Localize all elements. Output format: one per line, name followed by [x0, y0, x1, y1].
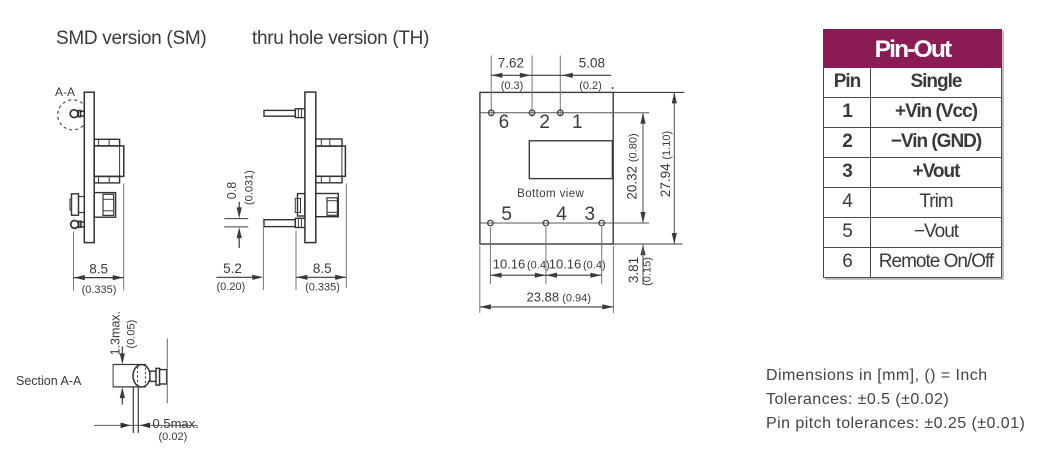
svg-text:20.32 (0.80): 20.32 (0.80): [624, 133, 639, 199]
TH module top flange: [316, 139, 342, 146]
SMD dimension 8.5: [74, 262, 124, 296]
bottom edge extension: [613, 243, 682, 245]
svg-text:6: 6: [499, 112, 510, 133]
top pin row line: [480, 112, 649, 114]
TH top pin: [264, 109, 305, 118]
svg-text:(0.20): (0.20): [217, 281, 246, 293]
pin 4 pad: [543, 220, 549, 226]
label window rectangle: [529, 141, 612, 179]
svg-text:(0.335): (0.335): [305, 282, 340, 294]
TH module body: [316, 146, 346, 176]
pin number 5: [501, 204, 512, 225]
dimension 1.3max up arrow: [120, 387, 125, 405]
svg-text:Bottom view: Bottom view: [517, 188, 584, 200]
svg-text:5.2: 5.2: [223, 261, 242, 276]
dimension 10.16 left: [491, 257, 550, 278]
extension line package left down: [479, 246, 481, 313]
pin 3 pad: [599, 220, 605, 226]
TH dimension 8.5: [296, 261, 346, 294]
svg-text:(0.05): (0.05): [125, 320, 137, 349]
extension line pin 6: [490, 56, 492, 117]
pin flange: [156, 368, 160, 385]
dimension 23.88: [480, 290, 614, 310]
pin 5 pad: [488, 220, 494, 226]
SMD pcb board: [84, 92, 94, 242]
title thru hole version (TH): [252, 28, 429, 50]
SMD top solder pin: [70, 110, 84, 118]
dimension 27.94: [658, 92, 677, 244]
dimension 5.08: [562, 56, 614, 93]
svg-text:8.5: 8.5: [313, 261, 332, 276]
pcb surface line: [166, 338, 168, 403]
svg-text:(0.94): (0.94): [562, 293, 591, 305]
dimension 0.5max: [94, 416, 199, 443]
pin neck: [150, 371, 156, 381]
lead lines: [133, 387, 138, 433]
SMD bottom solder pin: [71, 221, 85, 229]
TH extension line collar: [295, 231, 297, 290]
TH module bottom flange: [316, 176, 342, 183]
svg-text:0.5max.: 0.5max.: [153, 416, 199, 431]
extension line pin 5 down: [489, 227, 491, 284]
tick line upper: [113, 364, 146, 366]
SMD module top flange: [94, 139, 119, 146]
svg-text:1: 1: [572, 112, 583, 133]
TH bottom pin: [264, 218, 305, 227]
dimension 0.8 pin thickness: [224, 170, 255, 248]
dimension 1.3max down arrow: [120, 347, 125, 365]
svg-text:27.94 (1.10): 27.94 (1.10): [658, 131, 673, 197]
pin number 3: [585, 204, 596, 225]
svg-text:(0.031): (0.031): [244, 170, 256, 205]
SMD right header block: [94, 193, 115, 218]
TH dimension 5.2: [216, 261, 263, 293]
svg-text:10.16: 10.16: [493, 257, 526, 272]
svg-text:(0.4): (0.4): [583, 260, 606, 272]
SMD module body: [94, 146, 124, 177]
tick join vertical: [112, 365, 114, 387]
dimension 7.62: [491, 56, 611, 93]
svg-text:8.5: 8.5: [89, 262, 108, 277]
svg-text:4: 4: [556, 204, 567, 225]
Pin-Out table: [823, 29, 1002, 278]
svg-text:5: 5: [501, 204, 512, 225]
package outline: [480, 92, 613, 244]
svg-text:23.88: 23.88: [527, 290, 560, 305]
label A-A: [55, 85, 75, 99]
TH pcb board: [305, 92, 316, 243]
pin number 6: [499, 112, 510, 133]
TH left connector housing: [295, 194, 305, 216]
TH right header block: [316, 194, 339, 217]
svg-text:3: 3: [585, 204, 596, 225]
svg-text:3.81: 3.81: [626, 257, 641, 283]
TH extension line body right: [345, 184, 347, 289]
svg-text:5.08: 5.08: [579, 56, 605, 71]
svg-text:(0.15): (0.15): [642, 257, 654, 286]
svg-text:(0.2): (0.2): [579, 80, 602, 92]
tick line lower: [113, 386, 146, 388]
svg-text:Section A-A: Section A-A: [16, 374, 82, 388]
title SMD version (SM): [56, 28, 206, 50]
pin number 4: [556, 204, 567, 225]
pin 2 pad: [529, 110, 535, 116]
svg-text:10.16: 10.16: [549, 257, 582, 272]
TH extension line pin end: [262, 219, 264, 291]
pin number 1: [572, 112, 583, 133]
pin 6 pad: [488, 110, 494, 116]
svg-text:(0.4): (0.4): [527, 260, 550, 272]
svg-text:0.8: 0.8: [225, 182, 239, 199]
svg-text:A-A: A-A: [55, 85, 75, 99]
svg-text:7.62: 7.62: [498, 56, 524, 71]
pin barrel: [160, 370, 167, 384]
svg-text:2: 2: [539, 112, 550, 133]
extension line pin 4 down: [545, 227, 547, 284]
dimension 1.3max vertical label: [109, 311, 138, 355]
top edge extension: [613, 91, 684, 93]
extension line pin 3 down: [601, 227, 603, 284]
SMD extension line right: [123, 184, 125, 291]
footer notes: [766, 364, 1025, 436]
extension line pin 2: [531, 56, 533, 117]
dimension 20.32: [624, 113, 645, 223]
label Bottom view: [517, 188, 584, 200]
pin number 2: [539, 112, 550, 133]
extension line package right down: [612, 246, 614, 313]
detail circle A-A (dashed): [58, 100, 88, 130]
svg-text:(0.02): (0.02): [159, 431, 188, 443]
solder ball section: [133, 365, 150, 387]
extension line pin 1: [559, 56, 561, 117]
SMD left connector housing: [70, 194, 84, 215]
label Section A-A: [16, 374, 82, 388]
svg-text:(0.3): (0.3): [501, 80, 524, 92]
bottom pin row line: [480, 222, 649, 224]
SMD extension line left: [73, 232, 75, 291]
dimension 3.81: [626, 244, 654, 286]
SMD module bottom flange: [94, 176, 119, 183]
svg-text:1.3max.: 1.3max.: [109, 311, 123, 355]
svg-text:(0.335): (0.335): [82, 284, 117, 296]
dimension 10.16 right: [546, 257, 606, 278]
pin 1 pad: [558, 110, 564, 116]
